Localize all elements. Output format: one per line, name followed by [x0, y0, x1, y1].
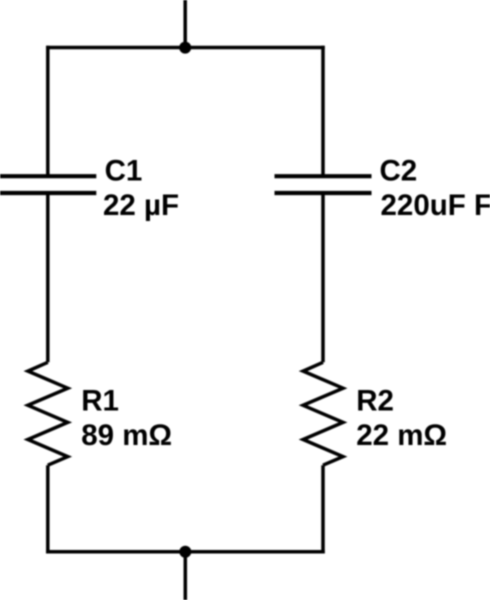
wire right lower: [321, 465, 325, 553]
svg-text:22 µF: 22 µF: [103, 189, 179, 222]
svg-text:R1: R1: [81, 384, 119, 417]
wire left lower: [46, 465, 50, 553]
wire top terminal stub: [183, 0, 187, 48]
wire right upper: [321, 46, 325, 176]
node top junction: [179, 42, 191, 54]
svg-text:R2: R2: [356, 384, 394, 417]
resistor R2: [303, 362, 343, 465]
svg-text:C1: C1: [105, 155, 143, 188]
capacitor C1: [0, 176, 96, 193]
node bottom junction: [179, 546, 191, 558]
wire top horizontal: [46, 46, 325, 50]
resistor R1: [28, 362, 68, 465]
wire left middle: [46, 193, 50, 362]
svg-text:C2: C2: [380, 155, 418, 188]
svg-text:220uF F: 220uF F: [381, 189, 490, 222]
wire left upper: [46, 46, 50, 176]
wire bottom horizontal: [46, 550, 325, 554]
svg-text:89 mΩ: 89 mΩ: [81, 419, 172, 452]
svg-text:22 mΩ: 22 mΩ: [356, 419, 447, 452]
wire right middle: [321, 193, 325, 362]
wire bottom terminal stub: [184, 552, 188, 600]
capacitor C2: [275, 176, 372, 193]
